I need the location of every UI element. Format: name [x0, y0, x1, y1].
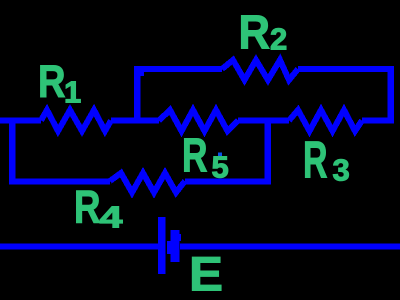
- wire: top rail right of R2: [298, 66, 394, 72]
- wire: right vertical joining R2 and R3: [387, 66, 394, 124]
- label R2: [239, 7, 288, 60]
- wire: middle row between R5 and R3: [238, 118, 289, 124]
- wire: left vertical down to R4 branch: [9, 118, 16, 185]
- stray pixel artifact near R5 subscript: [218, 153, 222, 157]
- wire: vertical from R4 row up to node B: [264, 118, 271, 185]
- battery E short plate: [167, 230, 181, 262]
- wire: R4 row right segment: [185, 179, 271, 185]
- label R4: [74, 181, 124, 235]
- svg-text:4: 4: [100, 200, 124, 235]
- wire: bottom rail right of battery: [180, 243, 400, 249]
- svg-text:1: 1: [64, 75, 81, 110]
- wire: middle row between R1 and R5: [111, 118, 159, 124]
- label R1: [38, 56, 81, 110]
- svg-text:E: E: [189, 248, 223, 300]
- svg-text:R: R: [239, 7, 271, 60]
- battery E long plate: [158, 217, 166, 274]
- resistor R1: [41, 110, 111, 131]
- resistor R4: [110, 173, 185, 193]
- svg-text:5: 5: [212, 150, 229, 185]
- wire: top rail left of R2: [134, 66, 222, 72]
- wire: bottom rail left of battery: [0, 243, 158, 249]
- svg-text:R: R: [303, 132, 328, 190]
- wire: R4 row left segment: [9, 179, 110, 185]
- wire: middle row left segment: [0, 118, 41, 124]
- svg-text:R: R: [74, 181, 101, 233]
- resistor R5: [159, 110, 238, 131]
- resistor R2: [222, 60, 298, 80]
- svg-text:2: 2: [270, 22, 287, 57]
- svg-text:3: 3: [333, 153, 350, 188]
- corner nub at node A junction: [141, 72, 145, 76]
- resistor R3: [289, 110, 362, 131]
- svg-text:R: R: [182, 130, 208, 183]
- label R5: [182, 130, 229, 185]
- svg-text:R: R: [38, 56, 66, 107]
- label R3: [303, 132, 350, 190]
- wire: vertical from node A up to top rail: [134, 66, 141, 124]
- wire: middle row right segment: [362, 118, 394, 124]
